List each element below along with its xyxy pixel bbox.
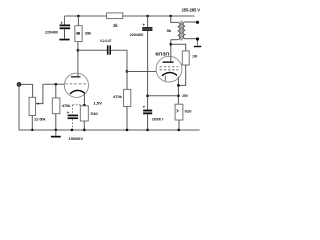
ground bar secondary (194, 46, 201, 47)
svg-text:25V: 25V (182, 93, 188, 98)
output terminal bottom (196, 37, 199, 40)
resistor R 510 body (80, 106, 88, 121)
svg-text:0,2-0,47: 0,2-0,47 (100, 38, 112, 43)
capacitor C1 plates (60, 25, 71, 27)
svg-text:100: 100 (192, 53, 198, 58)
svg-text:255-285 V: 255-285 V (182, 8, 201, 13)
resistor R 39k body (75, 26, 82, 42)
node cathode1 (83, 104, 86, 107)
svg-text:2k: 2k (113, 23, 118, 28)
capacitor C3 plus sign (67, 111, 69, 113)
wire pot bottom to rail (31, 116, 33, 131)
V2 anode lead up (170, 40, 172, 62)
capacitor C4 0,2-0,47 plates (107, 45, 109, 54)
output tube V2 envelope (156, 56, 182, 82)
node ground stub (55, 129, 58, 132)
svg-text:22-50k: 22-50k (34, 117, 46, 122)
capacitor C1 220/400 lead from rail (64, 16, 66, 25)
svg-text:1000/50 V: 1000/50 V (152, 118, 164, 122)
wire coupling right (111, 50, 127, 71)
node transformer primary top on rail (169, 15, 172, 18)
node cathode tap on C2 line (146, 94, 149, 97)
capacitor C1 bottom stem (64, 29, 66, 39)
V2 grids (dashed) (160, 66, 179, 68)
capacitor C5 plus sign (143, 106, 145, 108)
wire 470k V1 to rail (55, 114, 57, 130)
node grid1/470k (54, 83, 57, 86)
wire coupling left (78, 49, 107, 51)
resistor R 39k lead top (77, 16, 79, 26)
wire bottom rail (common) (19, 129, 200, 131)
pot wiper arrow (36, 84, 43, 103)
resistor R 620 body (175, 104, 183, 120)
wire cathode2 to C5 (148, 95, 179, 97)
V2 cathode lead down (177, 77, 179, 105)
wire R100 top (171, 44, 186, 51)
V2 heater lead (164, 76, 166, 81)
svg-text:470k: 470k (62, 103, 71, 108)
capacitor C2 plus sign (143, 24, 145, 26)
wire secondary bottom to terminal (185, 38, 197, 40)
svg-text:39k: 39k (85, 31, 92, 36)
wire wiper to V1 grid (43, 83, 65, 85)
capacitor C5 1000/50V plates (143, 110, 152, 112)
transformer T1 secondary winding (183, 22, 185, 39)
wire 620 to rail (178, 120, 180, 130)
wire secondary top to terminal (185, 21, 197, 23)
svg-text:510: 510 (90, 111, 98, 116)
wire C2 down to cathode node (147, 31, 149, 110)
ground stub below rail (55, 130, 57, 136)
wire input to pot (21, 84, 33, 97)
resistor R 470k body (V1 grid) (52, 98, 60, 114)
svg-text:1,5V: 1,5V (93, 101, 102, 106)
wire C5 to rail (147, 114, 149, 130)
wire input down to rail (18, 86, 20, 130)
wire 470k V2 to rail (126, 107, 128, 131)
resistor R 470k (V1 grid) lead (55, 84, 57, 98)
ground bar bottom (51, 136, 61, 138)
wire grid2 (127, 71, 156, 73)
input terminal (17, 82, 21, 86)
node coupling tap (77, 49, 80, 52)
capacitor C2 220/400 lead (147, 16, 149, 27)
node C2 top on rail (146, 15, 149, 18)
V2 cathode arc (162, 73, 177, 76)
output terminal top (196, 21, 199, 24)
V1 cathode lead (83, 93, 85, 106)
svg-text:220/400: 220/400 (45, 30, 59, 35)
svg-text:220/400: 220/400 (130, 32, 144, 37)
capacitor C2 plates (142, 27, 152, 29)
wire rail to primary top (171, 16, 178, 22)
capacitor C1 plus sign (60, 22, 62, 24)
node anode2 / R100 tap (169, 43, 172, 46)
node 39k top on rail (77, 15, 80, 18)
resistor R 100 body (182, 51, 189, 65)
resistor R 470k body (V2 grid) (124, 89, 131, 106)
V1 cathode arc (70, 90, 85, 93)
potentiometer 22-50k body (29, 97, 35, 115)
transformer T1 core (181, 21, 182, 41)
resistor R 2k body (series dropper) (107, 13, 123, 19)
svg-text:470k: 470k (113, 94, 123, 99)
wire R100 bottom to cathode2 (178, 65, 185, 85)
V1 anode bar (71, 76, 81, 77)
wire 510 to rail (83, 121, 85, 130)
ground stub secondary (196, 40, 198, 46)
node V2 grid (126, 70, 129, 73)
wire 39k to V1 anode (77, 42, 79, 77)
resistor R 470k (grid leak V2) lead top (126, 72, 128, 90)
ground under C1 (59, 39, 69, 41)
dashed link cathode1 to C3 (73, 104, 83, 106)
V2 anode bar (163, 61, 174, 63)
dashed link C3 to rail (72, 119, 74, 130)
svg-text:1500/6V: 1500/6V (68, 136, 83, 141)
node cathode2 b (177, 94, 180, 97)
V1 grid (dashed) (65, 83, 88, 85)
wire top rail B+ (65, 15, 195, 17)
svg-text:620: 620 (185, 108, 193, 113)
svg-text:6П3П: 6П3П (155, 52, 169, 57)
triode V1 envelope (64, 73, 88, 97)
transformer T1 primary winding (178, 22, 180, 39)
node cathode2 a (177, 84, 180, 87)
capacitor C3 1500/6V plates (68, 115, 78, 117)
wire primary bottom (171, 39, 178, 41)
